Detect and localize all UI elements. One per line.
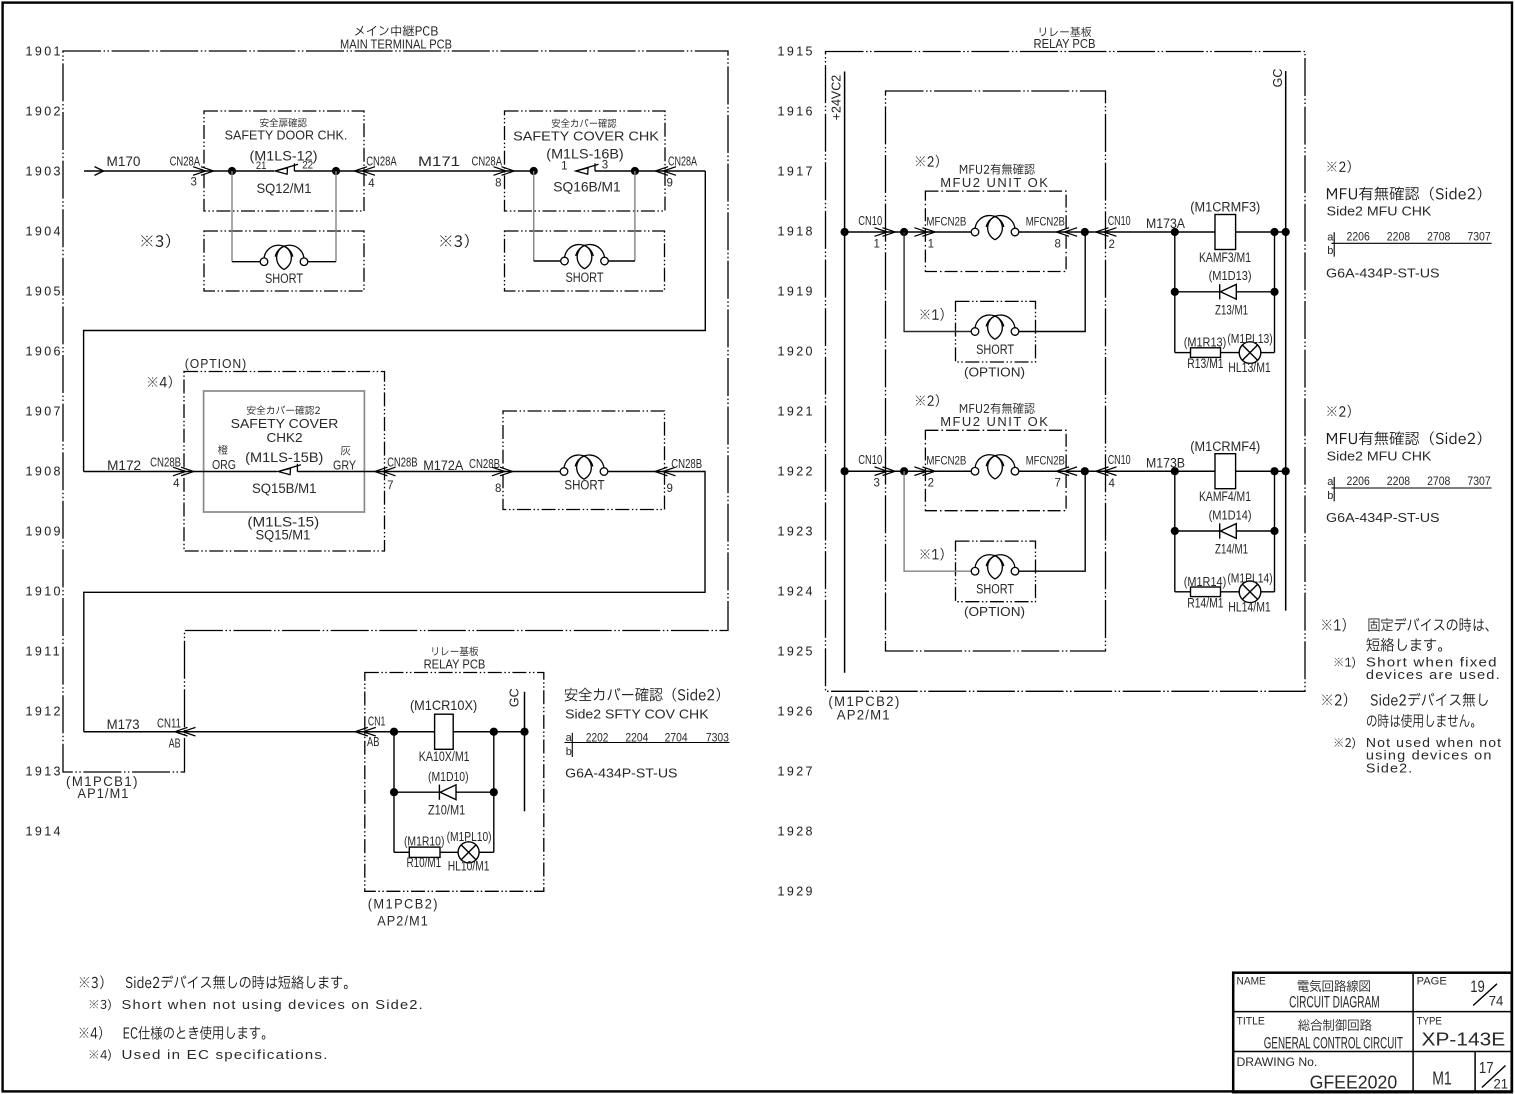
option box <box>184 372 385 552</box>
svg-text:(M1LS-16B): (M1LS-16B) <box>546 145 623 161</box>
wire M173B <box>1106 470 1175 472</box>
svg-text:1: 1 <box>561 161 567 173</box>
connector symbol SHORT row 1908 <box>560 468 568 476</box>
diode Z10/M1 <box>438 785 440 800</box>
svg-text:(OPTION): (OPTION) <box>964 604 1025 619</box>
connector symbol SHORT option <box>971 328 979 336</box>
svg-text:Z10/M1: Z10/M1 <box>428 803 465 818</box>
svg-text:+24VC2: +24VC2 <box>830 75 844 121</box>
svg-text:b: b <box>1327 490 1333 502</box>
svg-text:TITLE: TITLE <box>1237 1015 1265 1027</box>
wire resistor lamp row <box>1175 591 1191 593</box>
svg-text:Z14/M1: Z14/M1 <box>1215 542 1248 557</box>
svg-text:(M1CR10X): (M1CR10X) <box>410 697 477 713</box>
relay coil M1CRMF4 <box>1215 454 1236 489</box>
svg-text:CHK2: CHK2 <box>267 431 303 445</box>
note 2 marker side text <box>1327 160 1351 173</box>
relay PCB title right <box>1040 27 1091 37</box>
junction relay right <box>1270 228 1278 236</box>
svg-text:1927: 1927 <box>778 765 815 779</box>
wire relay to GC <box>1236 470 1286 472</box>
safety cover chk box M1LS-16B <box>505 111 666 211</box>
short jumper box SQ12 <box>204 231 364 291</box>
connector CN28A pin 9 <box>663 167 676 176</box>
svg-text:M172A: M172A <box>423 458 463 473</box>
wire M170 <box>104 170 275 172</box>
wire M173A <box>1106 231 1175 233</box>
svg-text:SQ16B/M1: SQ16B/M1 <box>553 179 621 195</box>
svg-text:AB: AB <box>169 737 181 751</box>
connector symbol SHORT option <box>971 567 979 575</box>
connector MFCN2B pin 8 right <box>1064 228 1077 237</box>
svg-text:Used in EC specifications.: Used in EC specifications. <box>122 1048 329 1062</box>
svg-text:7307: 7307 <box>1467 231 1490 243</box>
svg-text:1918: 1918 <box>778 225 815 239</box>
svg-text:(M1CRMF3): (M1CRMF3) <box>1190 200 1260 215</box>
connector CN1 pin AB <box>363 727 376 736</box>
limit switch SQ15B/M1 contact <box>278 468 290 474</box>
svg-text:1917: 1917 <box>778 165 815 179</box>
svg-text:Side2 MFU CHK: Side2 MFU CHK <box>1327 204 1432 219</box>
svg-text:SQ12/M1: SQ12/M1 <box>257 180 312 196</box>
inner dashed box right <box>886 91 1106 651</box>
limit switch SQ12/M1 contact <box>275 168 287 174</box>
svg-text:2206: 2206 <box>1347 231 1370 243</box>
svg-text:7: 7 <box>387 480 393 492</box>
svg-text:a: a <box>1327 231 1334 243</box>
svg-text:(M1R14): (M1R14) <box>1184 574 1227 589</box>
svg-text:4: 4 <box>173 478 180 490</box>
short box row 1908 <box>503 411 665 510</box>
short stubs row 1908 <box>503 471 560 473</box>
svg-text:2708: 2708 <box>1427 231 1450 243</box>
wire M170 entry arrow <box>84 170 104 172</box>
svg-text:CN28A: CN28A <box>170 155 201 169</box>
svg-text:1905: 1905 <box>26 285 63 299</box>
junction GC row <box>1282 228 1290 236</box>
wire M1CR10X to GC <box>453 731 524 733</box>
svg-text:SAFETY COVER: SAFETY COVER <box>231 417 339 431</box>
label MFU CHK side2 <box>1327 431 1481 445</box>
svg-text:(M1D13): (M1D13) <box>1209 268 1252 283</box>
svg-text:SHORT: SHORT <box>265 271 303 286</box>
short jumper wires gray <box>904 232 971 332</box>
svg-text:PAGE: PAGE <box>1417 975 1447 987</box>
svg-text:KA10X/M1: KA10X/M1 <box>419 749 470 764</box>
svg-text:MFCN2B: MFCN2B <box>1026 454 1065 468</box>
wire resistor-lamp row <box>394 851 409 853</box>
svg-text:(OPTION): (OPTION) <box>964 364 1025 379</box>
svg-text:RELAY PCB: RELAY PCB <box>424 657 486 671</box>
svg-text:1925: 1925 <box>778 645 815 659</box>
limit switch SQ16B/M1 contact <box>576 168 588 174</box>
junction +24VC2 row <box>841 228 849 236</box>
svg-text:RELAY PCB: RELAY PCB <box>1034 37 1096 51</box>
junction M1D10 right <box>490 788 498 796</box>
svg-text:22: 22 <box>302 159 313 171</box>
svg-text:3: 3 <box>602 159 608 171</box>
svg-text:MFCN2B: MFCN2B <box>926 454 966 468</box>
svg-text:2: 2 <box>928 478 934 490</box>
svg-text:b: b <box>566 746 572 758</box>
svg-text:G6A-434P-ST-US: G6A-434P-ST-US <box>565 765 678 780</box>
wire diode row <box>1175 291 1220 293</box>
svg-text:ORG: ORG <box>212 457 236 472</box>
connector MFCN2B pin 1 left <box>914 228 927 237</box>
junction MFU right branch <box>1081 467 1089 475</box>
svg-text:4: 4 <box>368 178 375 190</box>
junction diode left <box>1171 527 1179 535</box>
relay PCB box AP2/M1 bottom-left <box>365 673 544 892</box>
note 2 marker MFU <box>916 155 939 168</box>
MFU2 unit box <box>925 430 1066 510</box>
note 3 marker left <box>141 234 170 248</box>
short jumper wires right <box>1019 471 1085 571</box>
wire MFU right to inner edge <box>1066 231 1105 233</box>
svg-text:1926: 1926 <box>778 705 815 719</box>
svg-text:KAMF3/M1: KAMF3/M1 <box>1199 250 1251 265</box>
short jumper drop wires SQ16B <box>533 171 535 261</box>
power rail +24VC2 <box>844 72 846 673</box>
svg-text:GENERAL CONTROL CIRCUIT: GENERAL CONTROL CIRCUIT <box>1264 1034 1403 1053</box>
label MFU CHK side2 <box>1327 187 1481 201</box>
junction relay right <box>1270 467 1278 475</box>
lamp HL14/M1 <box>1239 581 1261 603</box>
svg-text:M172: M172 <box>107 458 141 473</box>
svg-text:M170: M170 <box>107 154 141 169</box>
svg-text:CN28B: CN28B <box>150 455 181 469</box>
wire 1908 to 1912 routing <box>84 472 705 732</box>
svg-text:(M1R13): (M1R13) <box>1184 335 1227 350</box>
wire SQ15B right <box>297 471 503 473</box>
svg-text:1913: 1913 <box>26 765 63 779</box>
svg-text:Z13/M1: Z13/M1 <box>1215 302 1248 317</box>
junction MFU left branch <box>900 467 908 475</box>
svg-text:1910: 1910 <box>26 585 63 599</box>
note 4 marker <box>148 376 172 389</box>
wire 1903 to 1908 routing <box>84 171 706 472</box>
junction on SQ12 left <box>228 167 236 175</box>
svg-text:Short when not using devices o: Short when not using devices on Side2. <box>122 998 424 1012</box>
junction on SQ12 right <box>332 167 340 175</box>
svg-text:CN10: CN10 <box>858 453 882 467</box>
wire diode row <box>1175 530 1220 532</box>
junction MFU left branch <box>900 228 908 236</box>
short option box <box>956 301 1036 362</box>
safety door chk box M1LS-12 <box>204 111 364 211</box>
svg-text:1: 1 <box>928 238 934 250</box>
GC rail right <box>1285 71 1287 611</box>
note 2 text <box>1322 693 1488 707</box>
short jumper wires right <box>1019 232 1085 332</box>
svg-text:MFU2 UNIT OK: MFU2 UNIT OK <box>940 414 1049 429</box>
svg-text:G6A-434P-ST-US: G6A-434P-ST-US <box>1326 265 1440 280</box>
short jumper wires gray <box>904 471 971 571</box>
wire MFU stub right <box>1019 231 1066 233</box>
svg-text:7: 7 <box>1055 478 1061 490</box>
svg-text:1923: 1923 <box>778 525 815 539</box>
junction +24VC2 row <box>841 467 849 475</box>
svg-text:devices are used.: devices are used. <box>1366 668 1501 682</box>
svg-text:4: 4 <box>1109 478 1116 490</box>
branch wires M1D10 <box>393 732 395 853</box>
svg-text:Side2.: Side2. <box>1366 761 1414 775</box>
resistor R13/M1 <box>1191 348 1221 358</box>
connector CN10 pin 4 right <box>1104 467 1117 476</box>
wire relay to GC <box>1236 231 1286 233</box>
svg-text:1920: 1920 <box>778 345 815 359</box>
svg-text:CN28A: CN28A <box>472 154 503 168</box>
svg-text:MFU2 UNIT OK: MFU2 UNIT OK <box>940 175 1049 190</box>
connector symbol SHORT SQ16B <box>561 257 569 265</box>
junction diode right <box>1270 288 1278 296</box>
svg-text:3: 3 <box>874 478 880 490</box>
svg-text:HL13/M1: HL13/M1 <box>1228 360 1271 375</box>
svg-text:9: 9 <box>667 178 673 190</box>
junction diode left <box>1171 288 1179 296</box>
svg-text:(M1LS-15B): (M1LS-15B) <box>245 449 323 465</box>
svg-text:CN10: CN10 <box>1108 214 1131 228</box>
short jumper drop wires SQ12 <box>231 171 233 262</box>
junction M1D10 left <box>390 788 398 796</box>
connector symbol SHORT SQ12 <box>260 258 268 266</box>
wire SQ12 to M171 <box>294 170 533 172</box>
svg-text:1906: 1906 <box>26 345 63 359</box>
svg-text:R10/M1: R10/M1 <box>407 855 442 870</box>
wire SQ16B right <box>595 170 705 172</box>
svg-text:AP2/M1: AP2/M1 <box>837 708 891 723</box>
svg-text:1919: 1919 <box>778 285 815 299</box>
connector MFCN2B pin 2 left <box>914 467 927 476</box>
svg-text:AP2/M1: AP2/M1 <box>377 914 429 929</box>
svg-text:CN28B: CN28B <box>671 457 702 471</box>
svg-text:CIRCUIT DIAGRAM: CIRCUIT DIAGRAM <box>1289 993 1380 1012</box>
junction M1CR10X left <box>390 728 398 736</box>
wire M172 <box>84 471 277 473</box>
svg-text:(M1PL14): (M1PL14) <box>1227 570 1272 585</box>
junction diode right <box>1270 527 1278 535</box>
wire MFU stub left <box>925 231 971 233</box>
svg-text:Side2 MFU CHK: Side2 MFU CHK <box>1327 448 1432 463</box>
svg-text:M171: M171 <box>418 154 460 169</box>
short jumper box SQ16B <box>505 231 665 291</box>
svg-text:(M1D14): (M1D14) <box>1209 507 1252 522</box>
junction relay left <box>1171 467 1179 475</box>
svg-text:CN11: CN11 <box>157 717 181 731</box>
svg-text:CN10: CN10 <box>858 214 882 228</box>
branch wires diode-lamp <box>1174 471 1176 592</box>
svg-text:19: 19 <box>1470 977 1485 996</box>
svg-text:17: 17 <box>1479 1060 1494 1077</box>
svg-text:1915: 1915 <box>778 45 815 59</box>
branch wires diode-lamp <box>1174 232 1176 353</box>
label side2 sfty cov chk <box>565 688 720 702</box>
title block frame <box>1233 973 1512 1092</box>
wire diode row 1913 <box>394 791 439 793</box>
GC rail bottom-left <box>524 692 526 812</box>
svg-text:R13/M1: R13/M1 <box>1187 356 1223 371</box>
note 1 marker <box>920 548 943 561</box>
junction GC row <box>1282 467 1290 475</box>
svg-text:(M1PCB2): (M1PCB2) <box>368 897 439 912</box>
svg-text:1928: 1928 <box>778 825 815 839</box>
svg-text:CN28A: CN28A <box>366 155 397 169</box>
junction GC10 <box>520 728 528 736</box>
svg-text:CN28B: CN28B <box>387 455 418 469</box>
svg-text:SQ15/M1: SQ15/M1 <box>255 528 310 543</box>
MFU2 unit title <box>960 403 1035 414</box>
note 2 marker MFU <box>916 394 939 407</box>
connector MFCN2B pin 7 right <box>1064 467 1077 476</box>
wire MFU right to inner edge <box>1066 470 1105 472</box>
svg-text:GRY: GRY <box>333 458 356 473</box>
resistor R10/M1 <box>409 847 440 857</box>
svg-text:2708: 2708 <box>1427 476 1450 488</box>
svg-text:KAMF4/M1: KAMF4/M1 <box>1199 489 1251 504</box>
svg-text:CN10: CN10 <box>1108 453 1131 467</box>
svg-text:TYPE: TYPE <box>1417 1015 1442 1027</box>
relay PCB box AP2/M1 right <box>826 52 1306 692</box>
svg-text:1916: 1916 <box>778 105 815 119</box>
svg-text:MAIN TERMINAL PCB: MAIN TERMINAL PCB <box>340 38 452 52</box>
note 3 text bottom <box>80 975 348 989</box>
svg-text:XP-143E: XP-143E <box>1422 1029 1506 1050</box>
svg-text:SHORT: SHORT <box>565 270 603 285</box>
svg-text:1: 1 <box>874 238 880 250</box>
svg-text:M173A: M173A <box>1146 216 1185 231</box>
svg-text:1903: 1903 <box>26 165 63 179</box>
svg-text:GC: GC <box>1271 69 1285 88</box>
svg-text:3: 3 <box>191 177 197 189</box>
svg-text:21: 21 <box>1494 1077 1509 1092</box>
wire MFU stub right <box>1019 470 1066 472</box>
svg-text:1902: 1902 <box>26 105 63 119</box>
connector symbol MFU unit <box>971 228 979 236</box>
svg-text:MFCN2B: MFCN2B <box>1026 214 1065 228</box>
junction on SQ16B right <box>631 167 639 175</box>
note 2 marker side text <box>1327 405 1351 418</box>
main terminal PCB box M1PCB1 <box>63 51 728 772</box>
svg-text:1911: 1911 <box>26 645 62 659</box>
svg-text:SHORT: SHORT <box>976 582 1014 597</box>
wire rail to inner box <box>845 231 926 233</box>
svg-text:(M1PL10): (M1PL10) <box>447 829 492 844</box>
junction relay left <box>1171 228 1179 236</box>
svg-text:Side2 SFTY COV CHK: Side2 SFTY COV CHK <box>565 707 709 722</box>
svg-text:1904: 1904 <box>26 225 63 239</box>
connector CN28B pin 9 row 1908 <box>663 467 676 476</box>
note 1 marker <box>920 308 943 321</box>
svg-text:2208: 2208 <box>1387 476 1410 488</box>
svg-text:GC: GC <box>508 688 522 707</box>
svg-text:(M1CRMF4): (M1CRMF4) <box>1190 439 1260 454</box>
lamp HL10/M1 <box>458 842 479 863</box>
note 3 marker right <box>440 234 469 248</box>
connector CN28A pin 4 <box>362 167 375 176</box>
safety cover chk2 box M1LS-15B <box>204 391 365 512</box>
resistor R14/M1 <box>1191 587 1221 597</box>
svg-text:AP1/M1: AP1/M1 <box>78 786 130 801</box>
svg-text:SAFETY DOOR CHK.: SAFETY DOOR CHK. <box>225 129 348 143</box>
note 1 text <box>1322 618 1489 632</box>
svg-text:(M1D10): (M1D10) <box>428 769 469 784</box>
svg-text:1912: 1912 <box>26 705 63 719</box>
svg-text:(M1PL13): (M1PL13) <box>1227 331 1272 346</box>
wire M173 <box>84 731 435 733</box>
MFU2 unit title <box>960 164 1035 175</box>
svg-text:NAME: NAME <box>1237 975 1266 987</box>
svg-text:a: a <box>1327 476 1334 488</box>
svg-text:1901: 1901 <box>26 45 63 59</box>
svg-text:74: 74 <box>1489 993 1504 1009</box>
svg-text:R14/M1: R14/M1 <box>1187 595 1223 610</box>
short option box <box>956 541 1036 602</box>
svg-text:b: b <box>1327 245 1333 257</box>
svg-text:G6A-434P-ST-US: G6A-434P-ST-US <box>1326 510 1440 525</box>
svg-text:1921: 1921 <box>778 405 815 419</box>
wire resistor lamp row <box>1175 352 1191 354</box>
svg-text:(M1R10): (M1R10) <box>404 833 445 848</box>
diode Z13/M1 <box>1219 284 1221 299</box>
svg-text:9: 9 <box>667 483 673 495</box>
relay coil M1CRMF3 <box>1215 215 1236 250</box>
svg-text:HL14/M1: HL14/M1 <box>1228 599 1271 614</box>
svg-text:1922: 1922 <box>778 465 815 479</box>
svg-text:8: 8 <box>1055 238 1061 250</box>
svg-text:MFCN2B: MFCN2B <box>926 214 966 228</box>
svg-text:1929: 1929 <box>778 885 815 899</box>
svg-text:1909: 1909 <box>26 525 63 539</box>
lamp HL13/M1 <box>1239 342 1261 364</box>
svg-text:1907: 1907 <box>26 405 63 419</box>
svg-text:CN28A: CN28A <box>668 154 697 168</box>
svg-text:AB: AB <box>367 735 380 749</box>
svg-text:DRAWING No.: DRAWING No. <box>1237 1057 1318 1069</box>
svg-text:SHORT: SHORT <box>564 477 604 492</box>
svg-text:1914: 1914 <box>26 825 63 839</box>
svg-text:SAFETY COVER CHK: SAFETY COVER CHK <box>513 129 660 143</box>
svg-text:21: 21 <box>256 160 267 172</box>
svg-text:M173: M173 <box>107 717 140 732</box>
svg-text:8: 8 <box>495 178 501 190</box>
svg-text:CN1: CN1 <box>368 715 386 729</box>
connector CN10 pin 2 right <box>1104 228 1117 237</box>
row labels 1915-1929 <box>778 45 815 899</box>
connector CN28B pin 7 <box>383 467 396 476</box>
diode Z14/M1 <box>1219 523 1221 538</box>
svg-text:1924: 1924 <box>778 585 815 599</box>
junction MFU right branch <box>1081 228 1089 236</box>
svg-text:SHORT: SHORT <box>976 342 1014 357</box>
svg-text:(OPTION): (OPTION) <box>185 356 247 371</box>
MFU2 unit box <box>925 191 1066 271</box>
svg-text:HL10/M1: HL10/M1 <box>448 859 490 874</box>
svg-text:SQ15B/M1: SQ15B/M1 <box>252 481 317 496</box>
svg-text:1908: 1908 <box>26 465 63 479</box>
wire rail to inner box <box>845 470 926 472</box>
junction M1CR10X right <box>490 728 498 736</box>
relay coil M1CR10X <box>435 714 454 749</box>
svg-text:GFEE2020: GFEE2020 <box>1310 1073 1398 1093</box>
svg-text:M173B: M173B <box>1146 455 1185 470</box>
svg-text:8: 8 <box>495 483 501 495</box>
row labels 1901-1914 <box>26 45 63 839</box>
svg-text:2206: 2206 <box>1347 476 1370 488</box>
svg-text:2208: 2208 <box>1387 231 1410 243</box>
svg-text:7307: 7307 <box>1467 476 1490 488</box>
wire MFU stub left <box>925 470 971 472</box>
svg-text:2: 2 <box>1109 239 1115 251</box>
